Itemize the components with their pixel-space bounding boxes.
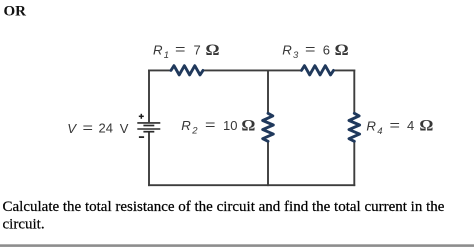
label R3 = 6 ohm: [282, 41, 348, 61]
battery V1: [137, 123, 160, 132]
label R2 = 10 ohm: [181, 116, 255, 136]
svg-text:R: R: [282, 43, 292, 58]
wire bottom segment: [148, 184, 355, 186]
svg-text:7: 7: [194, 42, 201, 57]
svg-text:Ω: Ω: [206, 41, 220, 59]
wire right vertical lower: [353, 141, 355, 186]
svg-text:=: =: [305, 42, 316, 57]
svg-text:6: 6: [323, 42, 330, 57]
resistor R1: [171, 66, 203, 75]
wire right vertical upper: [353, 70, 355, 114]
svg-text:3: 3: [293, 50, 299, 61]
wire left vertical upper (to battery +): [148, 70, 150, 123]
label R1 = 7 ohm: [153, 41, 220, 61]
svg-text:1: 1: [164, 50, 169, 61]
label V = 24 V: [67, 121, 129, 136]
svg-text:4: 4: [377, 126, 382, 137]
battery minus sign: [139, 136, 144, 138]
svg-text:R: R: [366, 118, 376, 133]
svg-text:circuit.: circuit.: [3, 216, 45, 232]
resistor R4: [349, 113, 360, 141]
svg-text:10: 10: [223, 118, 237, 133]
wire left vertical lower (from battery -): [148, 133, 150, 187]
svg-text:Ω: Ω: [335, 41, 349, 59]
resistor R3: [302, 66, 334, 75]
bottom separator rule: [0, 244, 474, 247]
svg-text:OR: OR: [4, 3, 27, 19]
svg-text:Calculate the total resistance: Calculate the total resistance of the ci…: [3, 199, 445, 215]
label R4 = 4 ohm: [366, 116, 433, 137]
battery plate short: [143, 125, 154, 127]
wire middle vertical lower: [267, 141, 269, 186]
svg-text:Ω: Ω: [419, 116, 433, 134]
svg-text:24: 24: [99, 121, 113, 136]
svg-text:R: R: [153, 43, 163, 58]
battery plate long top: [137, 122, 160, 124]
wire top-right segment: [334, 69, 356, 71]
svg-text:=: =: [205, 118, 216, 133]
svg-text:Ω: Ω: [241, 116, 255, 134]
battery plus sign: [139, 114, 144, 119]
svg-text:2: 2: [191, 125, 198, 136]
wire top-middle segment (node between R1 and R3): [203, 69, 302, 71]
wire top-left segment: [148, 69, 171, 71]
svg-text:R: R: [181, 118, 191, 133]
svg-text:4: 4: [407, 118, 414, 133]
wire middle vertical upper: [267, 70, 269, 114]
svg-text:=: =: [83, 121, 94, 136]
svg-text:V: V: [120, 121, 129, 136]
svg-text:V: V: [67, 121, 77, 136]
svg-text:=: =: [175, 42, 186, 57]
battery plate short bottom: [143, 131, 154, 133]
battery plate long: [137, 128, 160, 130]
resistor R2: [263, 113, 274, 141]
svg-text:=: =: [390, 118, 401, 133]
